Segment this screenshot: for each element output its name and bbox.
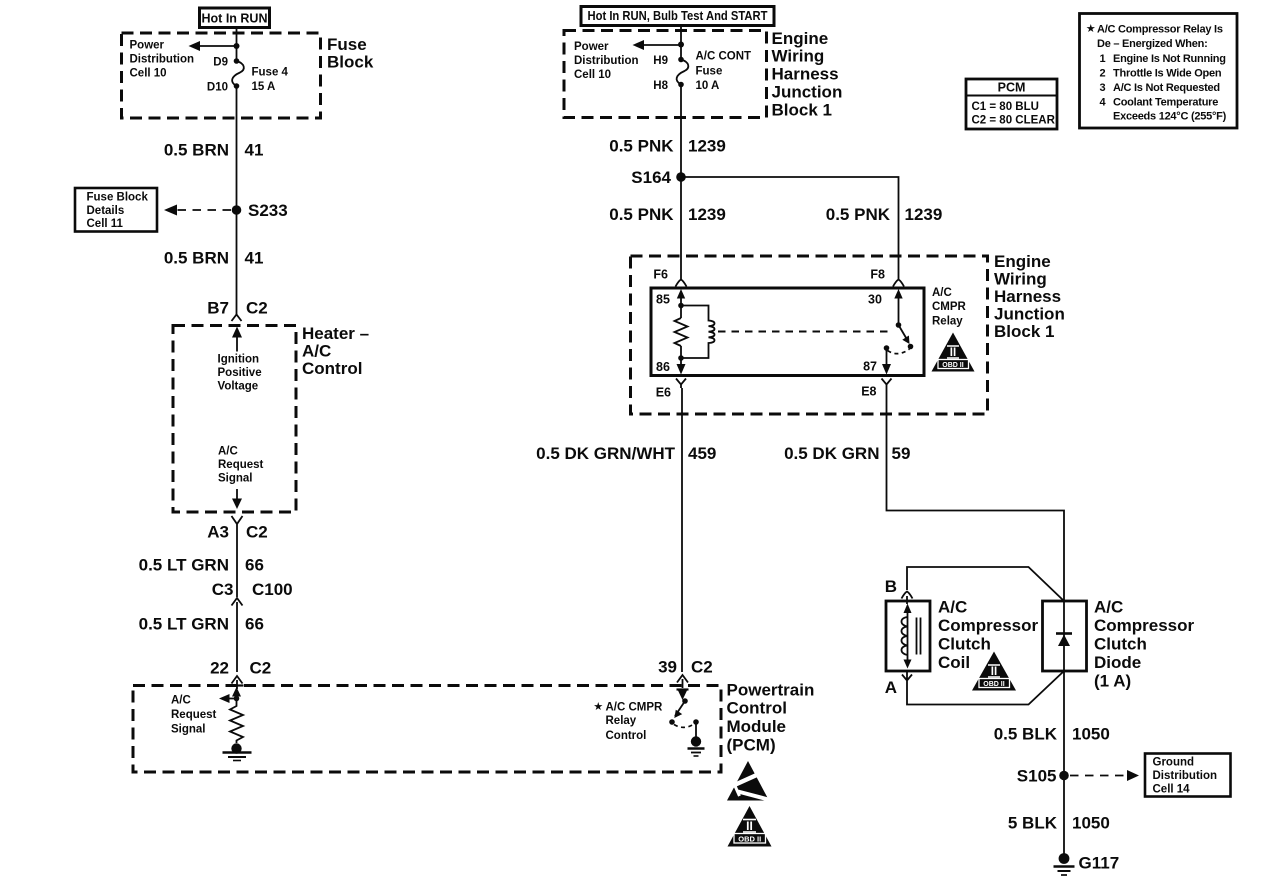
arrow ignition voltage (up) <box>232 327 242 352</box>
svg-text:OBD II: OBD II <box>738 834 761 843</box>
svg-text:0.5 PNK: 0.5 PNK <box>609 137 674 156</box>
svg-text:A: A <box>885 678 897 697</box>
text Power Distribution Cell 10 (middle) <box>574 41 639 81</box>
dashed arrow to Fuse Block Details <box>164 205 231 216</box>
svg-text:85: 85 <box>656 293 670 307</box>
svg-text:Ignition: Ignition <box>218 354 260 366</box>
svg-text:(1 A): (1 A) <box>1094 672 1131 691</box>
svg-text:Signal: Signal <box>171 724 206 736</box>
svg-text:D10: D10 <box>207 82 228 94</box>
relay switch pin 30 wire <box>894 289 902 328</box>
svg-text:Harness: Harness <box>994 287 1061 306</box>
connector symbol at E8 <box>882 379 892 389</box>
svg-text:Engine: Engine <box>772 29 829 48</box>
svg-text:C2: C2 <box>246 523 268 542</box>
svg-text:A/C: A/C <box>938 598 967 617</box>
svg-text:0.5 DK GRN/WHT: 0.5 DK GRN/WHT <box>536 444 675 463</box>
wire 59 from E8 to clutch diode <box>887 388 1065 601</box>
svg-text:Wiring: Wiring <box>772 47 825 66</box>
svg-text:41: 41 <box>245 141 264 160</box>
text Power Distribution Cell 10 <box>130 40 195 80</box>
wire 1239 from fuse down to F6 <box>680 85 682 281</box>
svg-text:86: 86 <box>656 360 670 374</box>
wire label 0.5 BRN 41 <box>164 141 264 160</box>
relay switch contact 87 <box>884 345 910 353</box>
wire 87 down with exit arrow <box>882 348 891 375</box>
fuse block dashed box <box>122 33 321 118</box>
svg-text:0.5 BRN: 0.5 BRN <box>164 249 229 268</box>
svg-text:H9: H9 <box>653 55 668 67</box>
svg-text:0.5 BRN: 0.5 BRN <box>164 141 229 160</box>
wire stub into coil box <box>906 596 908 604</box>
svg-text:A/C: A/C <box>218 446 238 458</box>
label Heater - A/C Control <box>302 324 369 378</box>
svg-text:Block 1: Block 1 <box>772 101 832 120</box>
svg-text:1239: 1239 <box>905 205 943 224</box>
wire: Hot In RUN down into fuse block <box>236 28 238 62</box>
svg-text:B7: B7 <box>207 299 229 318</box>
svg-text:Compressor: Compressor <box>938 616 1039 635</box>
svg-text:Junction: Junction <box>994 305 1065 324</box>
svg-text:87: 87 <box>863 360 877 374</box>
svg-text:Block 1: Block 1 <box>994 322 1054 341</box>
PCM dashed box <box>133 686 721 773</box>
svg-text:CMPR: CMPR <box>932 301 967 313</box>
wire from coil pin A to diode bottom <box>907 671 1064 705</box>
diode symbol <box>1056 634 1072 647</box>
label A/C Compressor Clutch Coil <box>938 598 1039 673</box>
PCM connector legend box <box>966 79 1057 129</box>
connector label A3 C2 <box>207 523 267 542</box>
wire stub into PCM at 39 <box>682 679 684 688</box>
ground ball (A/C request) <box>223 743 252 760</box>
ground ball (PCM driver) <box>688 736 705 756</box>
callout box Ground Distribution Cell 14 <box>1145 754 1231 797</box>
A/C compressor clutch diode box <box>1043 601 1087 671</box>
wire branch S164 to F8 <box>681 177 899 280</box>
svg-text:G117: G117 <box>1079 854 1120 873</box>
svg-text:1: 1 <box>1100 53 1106 65</box>
svg-text:Control: Control <box>727 699 787 718</box>
connector symbol at E6 <box>676 379 686 389</box>
svg-text:Junction: Junction <box>772 83 843 102</box>
label A/C CONT Fuse 10 A <box>696 51 752 93</box>
svg-text:Hot In RUN: Hot In RUN <box>202 12 268 26</box>
connector symbol at F6 <box>676 280 687 287</box>
svg-text:C2: C2 <box>691 658 713 677</box>
svg-text:Relay: Relay <box>606 715 637 727</box>
svg-text:Cell 10: Cell 10 <box>574 69 611 81</box>
svg-text:Hot In RUN, Bulb Test And STAR: Hot In RUN, Bulb Test And START <box>588 9 768 23</box>
svg-text:Cell 14: Cell 14 <box>1153 784 1191 796</box>
connector symbol at B <box>902 592 913 599</box>
svg-text:A/C: A/C <box>302 342 331 361</box>
svg-text:H8: H8 <box>653 80 668 92</box>
svg-text:Distribution: Distribution <box>1153 770 1218 782</box>
svg-text:Fuse: Fuse <box>696 66 723 78</box>
svg-text:Fuse Block: Fuse Block <box>87 192 149 204</box>
OBD II triangle (relay) <box>932 333 975 372</box>
connector label C3 C100 <box>212 580 293 599</box>
svg-text:1050: 1050 <box>1072 814 1110 833</box>
svg-text:0.5 LT GRN: 0.5 LT GRN <box>139 556 229 575</box>
ground G117 <box>1054 853 1120 875</box>
svg-text:Request: Request <box>218 459 264 471</box>
svg-text:0.5 PNK: 0.5 PNK <box>609 205 674 224</box>
fuse A/C CONT (H9-H8) <box>677 57 689 88</box>
svg-text:E6: E6 <box>656 386 671 400</box>
wire 41 from fuse block to heater control <box>236 86 238 315</box>
label Engine Wiring Harness Junction Block 1 (relay) <box>994 252 1065 341</box>
svg-text:C2: C2 <box>246 299 268 318</box>
svg-text:15 A: 15 A <box>252 81 276 93</box>
junction block 1 dashed box (top) <box>564 31 767 118</box>
arrow to Power Distribution (middle) <box>633 40 682 50</box>
connector symbol at B7/C2 <box>232 315 242 322</box>
wire: flag into junction block <box>680 25 682 60</box>
svg-text:A/C: A/C <box>1094 598 1123 617</box>
text Ignition Positive Voltage <box>218 354 262 393</box>
svg-text:Harness: Harness <box>772 65 839 84</box>
svg-text:II: II <box>950 347 956 359</box>
wire label 0.5 DK GRN/WHT 459 <box>536 444 716 463</box>
wire label 0.5 LT GRN 66 <box>139 556 264 575</box>
svg-text:5 BLK: 5 BLK <box>1008 814 1058 833</box>
connector symbol at 22/C2 <box>232 676 243 684</box>
svg-text:(PCM): (PCM) <box>727 736 776 755</box>
wire below resistor with exit arrow <box>677 346 686 375</box>
wire label 5 BLK 1050 <box>1008 814 1110 833</box>
svg-text:30: 30 <box>868 293 882 307</box>
label Engine Wiring Harness Junction Block 1 (top) <box>772 29 843 120</box>
wire 459 from E6 down to PCM pin 39 <box>681 388 683 672</box>
arrow into PCM at pin 22 <box>231 686 244 704</box>
svg-text:1050: 1050 <box>1072 725 1110 744</box>
svg-text:Module: Module <box>727 717 787 736</box>
junction and arrow A/C request signal (left) <box>219 694 239 703</box>
connector symbol at C3/C100 <box>232 598 243 606</box>
svg-text:D9: D9 <box>213 57 228 69</box>
svg-text:Ground: Ground <box>1153 757 1195 769</box>
svg-text:E8: E8 <box>861 385 876 399</box>
svg-text:OBD II: OBD II <box>983 681 1004 688</box>
connector symbol at A3/C2 <box>232 516 243 527</box>
connector symbol at F8 <box>893 280 904 287</box>
svg-text:A/C Is Not Requested: A/C Is Not Requested <box>1113 82 1220 94</box>
flag box "Hot In RUN" <box>200 8 270 28</box>
splice S233 <box>232 201 288 220</box>
svg-text:Control: Control <box>606 730 647 742</box>
svg-text:Powertrain: Powertrain <box>727 681 815 700</box>
connector label 39 C2 <box>658 658 713 677</box>
svg-text:C2: C2 <box>250 659 272 678</box>
flag box "Hot In RUN, Bulb Test And START" <box>581 7 774 26</box>
svg-text:1239: 1239 <box>688 205 726 224</box>
svg-text:39: 39 <box>658 658 677 677</box>
label Fuse 4 15 A <box>252 67 289 94</box>
svg-text:S105: S105 <box>1017 767 1057 786</box>
svg-text:22: 22 <box>210 659 229 678</box>
wire through diode down to ground <box>1063 601 1065 855</box>
OBD II triangle (PCM) <box>728 806 772 847</box>
svg-text:0.5 PNK: 0.5 PNK <box>826 205 891 224</box>
text A/C Request Signal <box>218 446 264 485</box>
svg-text:PCM: PCM <box>998 81 1026 95</box>
connector label 22 C2 <box>210 659 271 678</box>
arrow A/C request out (down) <box>232 489 242 509</box>
svg-text:A/C: A/C <box>932 287 952 299</box>
svg-text:Coolant Temperature: Coolant Temperature <box>1113 97 1218 109</box>
svg-text:Exceeds 124°C (255°F): Exceeds 124°C (255°F) <box>1113 111 1227 123</box>
connector symbol at 39/C2 <box>677 675 688 683</box>
wire label 0.5 PNK 1239 (upper) <box>609 137 726 156</box>
svg-text:Distribution: Distribution <box>130 54 195 66</box>
wire label 0.5 PNK 1239 (left lower) <box>609 205 726 224</box>
svg-text:A3: A3 <box>207 523 229 542</box>
OBD II triangle (clutch coil) <box>972 652 1016 691</box>
svg-text:B: B <box>885 577 897 596</box>
svg-text:F6: F6 <box>653 268 668 282</box>
svg-text:★: ★ <box>1087 24 1096 35</box>
svg-text:59: 59 <box>892 444 911 463</box>
junction block 1 dashed box (relay) <box>631 256 988 414</box>
svg-text:Wiring: Wiring <box>994 270 1047 289</box>
svg-text:Request: Request <box>171 709 217 721</box>
svg-text:S164: S164 <box>631 168 671 187</box>
svg-text:Voltage: Voltage <box>218 381 259 393</box>
connector label B7 C2 <box>207 299 267 318</box>
svg-text:Fuse 4: Fuse 4 <box>252 67 289 79</box>
svg-text:F8: F8 <box>870 268 885 282</box>
svg-text:Control: Control <box>302 359 362 378</box>
wire from diode top to coil pin B <box>907 567 1064 601</box>
svg-text:Signal: Signal <box>218 473 253 485</box>
A/C compressor clutch coil box <box>886 601 930 671</box>
svg-text:459: 459 <box>688 444 716 463</box>
wire 66 upper <box>236 527 238 597</box>
wire label 0.5 BLK 1050 <box>994 725 1110 744</box>
svg-text:S233: S233 <box>248 201 288 220</box>
relay resistor <box>675 318 688 346</box>
svg-text:0.5 DK GRN: 0.5 DK GRN <box>784 444 879 463</box>
svg-text:C2 = 80 CLEAR: C2 = 80 CLEAR <box>972 115 1056 127</box>
svg-text:Relay: Relay <box>932 316 963 328</box>
wire label 0.5 PNK 1239 (right branch) <box>826 205 943 224</box>
svg-text:0.5 LT GRN: 0.5 LT GRN <box>139 615 229 634</box>
relay switch arm <box>899 325 914 349</box>
note box A/C compressor relay <box>1080 14 1238 129</box>
svg-text:0.5 BLK: 0.5 BLK <box>994 725 1058 744</box>
svg-text:A/C: A/C <box>171 695 191 707</box>
svg-text:Distribution: Distribution <box>574 55 639 67</box>
text * A/C CMPR Relay Control <box>594 702 663 743</box>
junction node (middle fuse) <box>678 42 684 48</box>
svg-text:1239: 1239 <box>688 137 726 156</box>
svg-text:A/C CONT: A/C CONT <box>696 51 752 63</box>
label A/C Compressor Clutch Diode (1 A) <box>1094 598 1195 691</box>
svg-text:II: II <box>746 819 753 833</box>
splice S105 <box>1017 767 1069 786</box>
svg-text:A/C Compressor Relay Is: A/C Compressor Relay Is <box>1097 24 1223 36</box>
svg-text:2: 2 <box>1100 68 1106 80</box>
svg-text:Engine Is Not Running: Engine Is Not Running <box>1113 53 1226 65</box>
PCM internal switch (relay control driver) <box>669 698 699 737</box>
svg-text:Cell 11: Cell 11 <box>87 218 124 230</box>
svg-text:66: 66 <box>245 556 264 575</box>
label Fuse Block <box>327 35 374 72</box>
svg-text:10 A: 10 A <box>696 80 720 92</box>
svg-text:A/C CMPR: A/C CMPR <box>606 702 664 714</box>
svg-text:Compressor: Compressor <box>1094 616 1195 635</box>
label A/C CMPR Relay <box>932 287 967 328</box>
svg-text:Clutch: Clutch <box>1094 635 1147 654</box>
svg-text:66: 66 <box>245 615 264 634</box>
resistor in PCM (A/C request) <box>230 703 243 743</box>
callout box Fuse Block Details Cell 11 <box>75 188 157 232</box>
junction node in fuse block <box>234 43 240 49</box>
svg-text:Heater –: Heater – <box>302 324 369 343</box>
svg-text:★: ★ <box>594 702 603 713</box>
connector symbol at A <box>902 671 912 683</box>
ESD symbol triangle <box>727 761 772 801</box>
svg-text:OBD II: OBD II <box>942 362 963 369</box>
svg-text:Coil: Coil <box>938 653 970 672</box>
text A/C Request Signal (PCM) <box>171 695 217 736</box>
svg-text:4: 4 <box>1100 97 1107 109</box>
svg-text:Engine: Engine <box>994 252 1051 271</box>
relay coil (parallel loop) <box>681 306 715 359</box>
svg-text:C100: C100 <box>252 580 293 599</box>
dashed arrow to Ground Distribution <box>1070 770 1139 781</box>
label Powertrain Control Module (PCM) <box>727 681 815 755</box>
wire label 0.5 LT GRN 66 (lower) <box>139 615 264 634</box>
Heater-A/C Control dashed box <box>173 326 296 513</box>
svg-text:II: II <box>991 666 997 678</box>
svg-text:Clutch: Clutch <box>938 635 991 654</box>
svg-text:Throttle Is Wide Open: Throttle Is Wide Open <box>1113 68 1222 80</box>
wire 66 lower <box>236 602 238 672</box>
svg-text:Power: Power <box>130 40 165 52</box>
splice S164 <box>631 168 686 187</box>
wire stub into PCM <box>236 680 238 689</box>
relay actuation dashed link <box>718 331 893 333</box>
svg-text:C1 = 80 BLU: C1 = 80 BLU <box>972 101 1039 113</box>
A/C CMPR relay solid box <box>651 288 924 376</box>
svg-text:C3: C3 <box>212 580 234 599</box>
svg-text:De – Energized When:: De – Energized When: <box>1097 38 1208 50</box>
svg-text:Cell 10: Cell 10 <box>130 68 167 80</box>
arrow to Power Distribution <box>189 41 237 51</box>
svg-text:Diode: Diode <box>1094 653 1141 672</box>
svg-text:Block: Block <box>327 53 374 72</box>
clutch coil element <box>902 604 921 669</box>
svg-text:3: 3 <box>1100 82 1106 94</box>
svg-text:Power: Power <box>574 41 609 53</box>
svg-text:41: 41 <box>245 249 264 268</box>
arrow into PCM at pin 39 <box>677 690 689 701</box>
svg-text:Positive: Positive <box>218 367 262 379</box>
fuse Fuse 4 (D9-D10) <box>232 58 244 89</box>
wire label 0.5 BRN 41 (lower) <box>164 249 264 268</box>
wire label 0.5 DK GRN 59 <box>784 444 910 463</box>
svg-text:Fuse: Fuse <box>327 35 367 54</box>
relay coil branch wire (pin85 to pin86) <box>677 289 685 318</box>
svg-text:Details: Details <box>87 205 125 217</box>
